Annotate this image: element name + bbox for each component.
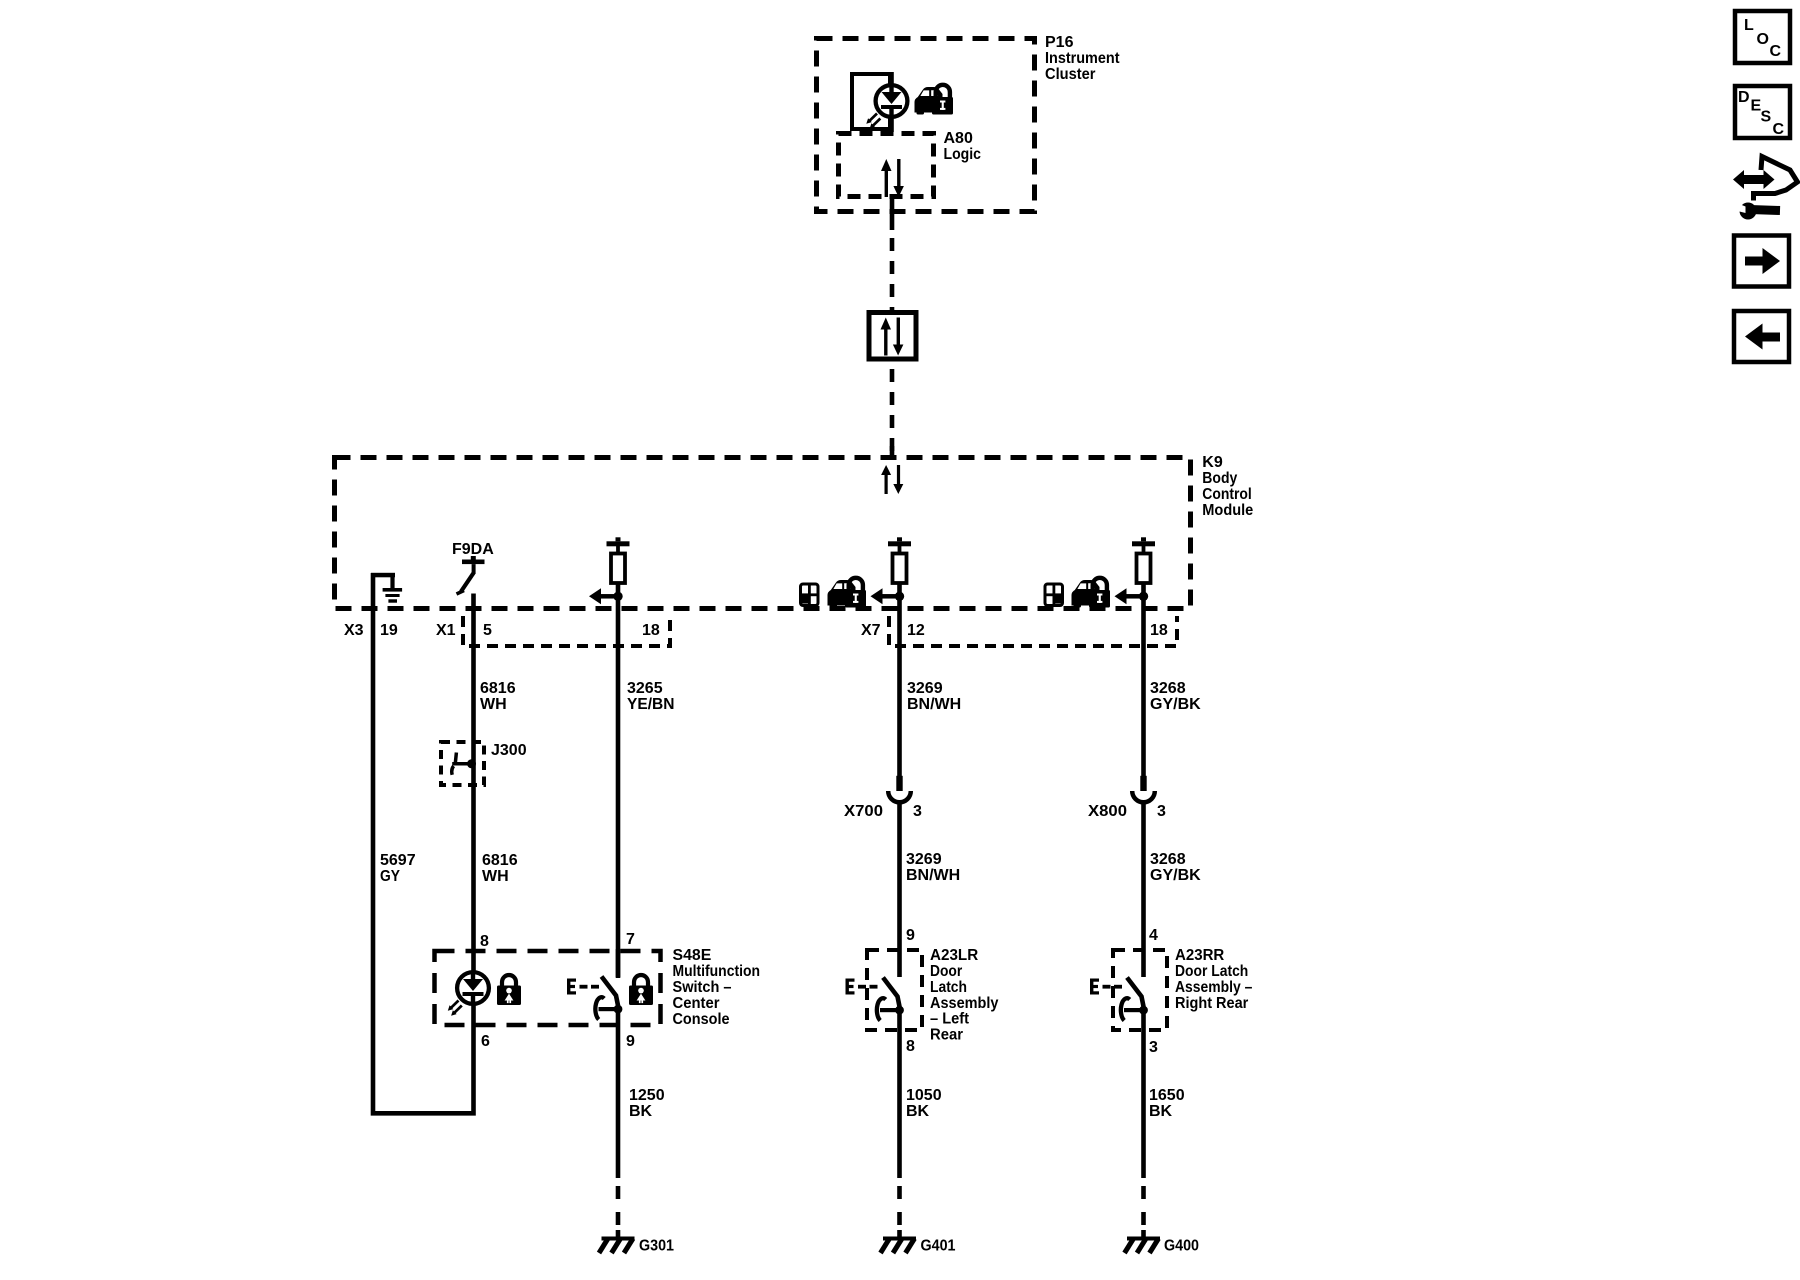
splice J300 symbol	[452, 753, 476, 775]
icon car with lock (K9 left)	[828, 578, 867, 608]
driver output pin X7-12	[871, 537, 912, 604]
serial data arrows in K9	[881, 465, 903, 494]
fuse F9DA	[457, 556, 485, 594]
wire 3268 from driver to X800	[1141, 583, 1146, 777]
wire 6816 from fuse to S48E pin 8	[471, 594, 476, 950]
connector X700 symbol	[888, 776, 911, 803]
wire dashed to G400	[1141, 1186, 1146, 1237]
wire serial data dashed upper	[890, 238, 895, 310]
wire serial data dashed lower	[890, 369, 895, 453]
nav icon LOC box	[1735, 11, 1790, 63]
svg-text:– Left: – Left	[930, 1011, 970, 1028]
indicator frame in P16	[852, 74, 890, 129]
wire S48E pin 7 internal	[616, 949, 621, 978]
svg-text:A23LR: A23LR	[930, 947, 979, 964]
indicator LED lamp in P16	[866, 84, 907, 129]
svg-text:3269: 3269	[906, 851, 942, 868]
wire S48E pin 9 internal	[616, 1012, 621, 1178]
svg-text:3268: 3268	[1150, 680, 1186, 697]
svg-text:BK: BK	[906, 1103, 930, 1120]
svg-text:Assembly –: Assembly –	[1175, 979, 1252, 996]
nav icon back arrow box	[1734, 311, 1789, 362]
svg-text:19: 19	[380, 622, 398, 639]
wire A23RR pin 4 internal	[1141, 949, 1146, 977]
svg-text:K9: K9	[1202, 454, 1223, 471]
svg-text:X7: X7	[861, 622, 881, 639]
svg-text:BK: BK	[629, 1103, 653, 1120]
wire A23RR pin 3 internal	[1141, 1011, 1146, 1178]
svg-text:Right Rear: Right Rear	[1175, 995, 1248, 1012]
nav icon DESC box	[1735, 86, 1790, 138]
svg-text:4: 4	[1149, 927, 1158, 944]
svg-text:Rear: Rear	[930, 1027, 963, 1044]
svg-text:9: 9	[906, 927, 915, 944]
svg-text:BN/WH: BN/WH	[906, 867, 960, 884]
svg-text:A80: A80	[944, 130, 973, 147]
svg-text:P16: P16	[1045, 34, 1074, 51]
svg-text:18: 18	[1150, 622, 1168, 639]
svg-text:Module: Module	[1202, 502, 1253, 519]
svg-text:1650: 1650	[1149, 1087, 1185, 1104]
svg-text:G401: G401	[921, 1238, 956, 1255]
svg-text:7: 7	[626, 931, 635, 948]
wire serial data stub below A80	[890, 197, 895, 230]
svg-text:X1: X1	[436, 622, 456, 639]
svg-text:3: 3	[913, 803, 922, 820]
svg-text:S: S	[1761, 109, 1772, 126]
svg-text:L: L	[1744, 17, 1754, 34]
svg-text:5: 5	[483, 622, 492, 639]
svg-text:C: C	[1773, 121, 1785, 138]
svg-text:1250: 1250	[629, 1087, 665, 1104]
svg-text:GY/BK: GY/BK	[1150, 867, 1201, 884]
svg-text:X800: X800	[1088, 803, 1127, 820]
svg-text:Body: Body	[1202, 470, 1237, 487]
svg-text:Multifunction: Multifunction	[673, 963, 761, 980]
driver output pin 18 (right)	[1115, 537, 1156, 604]
svg-text:GY: GY	[380, 868, 400, 885]
switch mech link E (S48E)	[567, 979, 599, 995]
serial data communication box	[869, 313, 916, 360]
ground G301	[599, 1237, 635, 1254]
icon window left-rear (K9)	[799, 583, 820, 608]
connector X800 symbol	[1132, 776, 1155, 803]
splice J300 box	[441, 742, 484, 785]
svg-text:C: C	[1770, 43, 1782, 60]
svg-text:Latch: Latch	[930, 979, 967, 996]
svg-text:Switch –: Switch –	[673, 979, 732, 996]
svg-text:Logic: Logic	[944, 146, 982, 163]
ground G401	[881, 1237, 917, 1254]
ground symbol inside K9 (pin 19)	[371, 573, 402, 603]
svg-text:3: 3	[1157, 803, 1166, 820]
svg-text:WH: WH	[482, 868, 509, 885]
svg-text:5697: 5697	[380, 852, 416, 869]
svg-text:S48E: S48E	[673, 947, 712, 964]
svg-text:F9DA: F9DA	[452, 541, 494, 558]
icon car with lock (K9 right)	[1072, 578, 1111, 608]
wire 3265 from driver to S48E pin 7	[616, 583, 621, 977]
body control module K9 box	[335, 458, 1191, 609]
logic module A80 box	[839, 134, 934, 197]
svg-text:3269: 3269	[907, 680, 943, 697]
svg-text:8: 8	[906, 1038, 915, 1055]
svg-text:G400: G400	[1164, 1238, 1199, 1255]
multifunction switch S48E box	[435, 951, 661, 1025]
nav icon next arrow box	[1734, 236, 1789, 287]
wire P16 lamp feed	[889, 72, 894, 132]
switch mech link E (A23RR)	[1090, 979, 1122, 995]
latch switch in A23RR	[1121, 978, 1148, 1021]
svg-text:6: 6	[481, 1033, 490, 1050]
svg-text:3265: 3265	[627, 680, 663, 697]
svg-text:D: D	[1738, 89, 1750, 106]
svg-text:O: O	[1757, 31, 1769, 48]
wire dashed to G301	[616, 1186, 621, 1237]
svg-text:BN/WH: BN/WH	[907, 696, 961, 713]
driver output pin 5/18 (left)	[589, 537, 630, 604]
svg-text:WH: WH	[480, 696, 507, 713]
svg-text:3268: 3268	[1150, 851, 1186, 868]
svg-text:Assembly: Assembly	[930, 995, 999, 1012]
wire 3269 below X700	[897, 802, 902, 950]
instrument cluster P16 box	[817, 39, 1035, 212]
svg-text:Console: Console	[673, 1011, 730, 1028]
icon padlock (S48E lamp)	[497, 975, 521, 1005]
svg-text:3: 3	[1149, 1039, 1158, 1056]
svg-text:A23RR: A23RR	[1175, 947, 1225, 964]
lock switch in S48E	[595, 977, 622, 1020]
icon padlock (S48E switch)	[629, 975, 653, 1005]
nav icon diagnostic arrows with wrench	[1733, 157, 1798, 220]
svg-text:Door: Door	[930, 963, 962, 980]
svg-text:G301: G301	[639, 1238, 674, 1255]
icon car with lock (P16)	[915, 85, 954, 115]
svg-text:1050: 1050	[906, 1087, 942, 1104]
svg-text:J300: J300	[491, 742, 527, 759]
wire 3268 below X800	[1141, 802, 1146, 950]
svg-text:Center: Center	[673, 995, 720, 1012]
svg-text:9: 9	[626, 1033, 635, 1050]
svg-text:YE/BN: YE/BN	[627, 696, 675, 713]
svg-text:18: 18	[642, 622, 660, 639]
svg-text:6816: 6816	[480, 680, 516, 697]
ground G400	[1125, 1237, 1161, 1254]
icon window right-rear (K9)	[1044, 583, 1065, 608]
svg-text:Cluster: Cluster	[1045, 66, 1096, 83]
svg-text:Door Latch: Door Latch	[1175, 963, 1248, 980]
serial data arrows in A80	[881, 159, 904, 197]
svg-text:BK: BK	[1149, 1103, 1173, 1120]
svg-text:GY/BK: GY/BK	[1150, 696, 1201, 713]
wire 3269 from driver to X700	[897, 583, 902, 777]
door latch A23LR box	[867, 950, 922, 1030]
connector X1 dashed outline	[463, 616, 670, 646]
connector X7 dashed outline	[889, 616, 1177, 646]
svg-text:X700: X700	[844, 803, 883, 820]
indicator LED lamp in S48E	[448, 971, 489, 1016]
svg-text:12: 12	[907, 622, 925, 639]
wire serial entry stub into K9	[890, 446, 895, 458]
svg-text:8: 8	[480, 933, 489, 950]
svg-text:Control: Control	[1202, 486, 1252, 503]
svg-text:X3: X3	[344, 622, 364, 639]
svg-text:6816: 6816	[482, 852, 518, 869]
wire X3 pin 19 to bottom loop (5697 GY)	[373, 573, 474, 1113]
wire A23LR pin 8 internal	[897, 1011, 902, 1178]
svg-text:Instrument: Instrument	[1045, 50, 1120, 67]
wire dashed to G401	[897, 1186, 902, 1237]
door latch A23RR box	[1113, 950, 1167, 1030]
latch switch in A23LR	[877, 978, 904, 1021]
wire S48E pin 8 internal	[471, 949, 476, 1029]
serial data arrows in box	[881, 318, 904, 356]
wire A23LR pin 9 internal	[897, 949, 902, 977]
switch mech link E (A23LR)	[846, 979, 878, 995]
